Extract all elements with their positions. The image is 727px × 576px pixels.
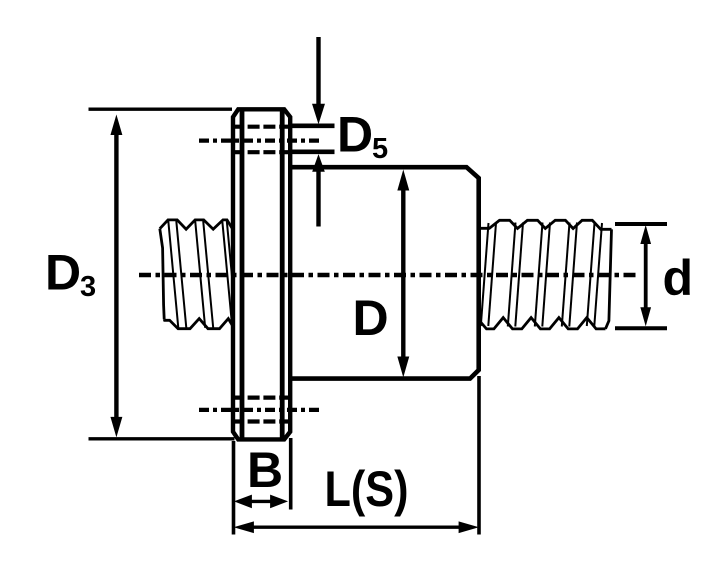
svg-text:B: B [247, 442, 283, 498]
svg-text:3: 3 [80, 271, 96, 303]
svg-text:d: d [663, 250, 694, 306]
svg-text:5: 5 [372, 133, 388, 165]
svg-text:L(S): L(S) [325, 461, 409, 517]
svg-text:D: D [337, 107, 373, 163]
svg-text:D: D [45, 245, 81, 301]
svg-text:D: D [353, 290, 389, 346]
